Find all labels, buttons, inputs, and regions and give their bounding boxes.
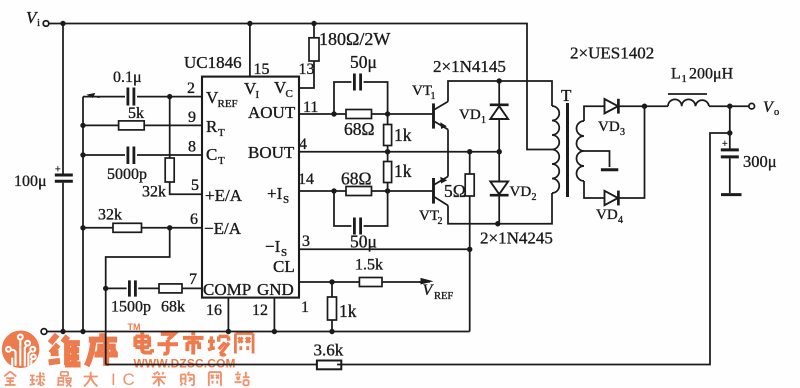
svg-text:9: 9 (188, 109, 196, 126)
wire: 100u bottom to ground rail (62, 183, 64, 332)
wire: pin8 CT row (83, 154, 202, 156)
wire: VD4 up to rectifier junction (618, 106, 644, 198)
pin 9 label (188, 109, 196, 126)
node: BOUT row 1k junction (385, 149, 390, 154)
trimmer arrow on VREF wire (87, 93, 100, 98)
watermark char shi (183, 332, 204, 355)
watermark slogan IC (111, 370, 135, 388)
IC inner pin name CL (273, 257, 295, 276)
resistor R 1k pulldown (328, 282, 357, 332)
svg-text:−E/A: −E/A (204, 219, 242, 238)
watermark slogan da (84, 372, 98, 386)
watermark slogan wang2 (209, 372, 221, 386)
wire: pin4 BOUT row to VD junction (299, 136, 499, 153)
wire: feedback drop from comp node to bottom line (105, 288, 107, 364)
wire: secondary centre tap (584, 151, 610, 167)
svg-text:11: 11 (303, 99, 318, 116)
svg-text:COMP: COMP (203, 280, 251, 299)
capacitor C 0.1u (113, 69, 142, 106)
svg-text:+E/A: +E/A (205, 186, 243, 205)
pin 5 label (191, 177, 199, 194)
resistor R 180ohm/2W (309, 24, 390, 62)
svg-text:TM: TM (128, 322, 141, 332)
svg-text:8: 8 (188, 139, 196, 156)
svg-text:200μH: 200μH (689, 66, 734, 83)
wire: VD3 to output node (618, 105, 668, 107)
svg-text:3.6k: 3.6k (314, 341, 344, 360)
svg-text:WWW.DZSC.COM: WWW.DZSC.COM (134, 357, 236, 371)
watermark slogan zhan (234, 371, 249, 385)
IC inner pin name BOUT (248, 143, 295, 162)
svg-text:1k: 1k (339, 301, 357, 321)
svg-text:REF: REF (218, 98, 238, 110)
wire: feedback bottom line to 3.6k (106, 364, 317, 366)
node: AOUT row right (385, 111, 390, 116)
svg-text:2: 2 (187, 80, 195, 97)
transformer T primary winding (552, 106, 559, 193)
resistor R 1k upper (384, 114, 412, 152)
resistor R 68ohm upper (344, 110, 375, 140)
watermark slogan zui (57, 372, 72, 387)
resistor R 32k to +E/A (142, 97, 202, 201)
svg-text:L: L (671, 66, 681, 83)
node: pin15 feed (247, 21, 252, 26)
svg-text:15: 15 (254, 61, 270, 78)
watermark slogan quan (4, 371, 16, 384)
svg-text:C: C (123, 370, 135, 388)
wire: top +Vin rail from Vi to right corner then down to transformer center tap (49, 24, 552, 150)
svg-text:4: 4 (299, 136, 307, 153)
wire: output down to 300u (729, 106, 731, 148)
svg-text:16: 16 (206, 302, 222, 319)
svg-text:13: 13 (299, 61, 315, 78)
svg-text:VD: VD (459, 107, 481, 123)
svg-text:180Ω/2W: 180Ω/2W (319, 29, 390, 49)
svg-text:VD: VD (598, 119, 620, 135)
node: VD2 cathode junction (495, 221, 500, 226)
svg-text:1: 1 (682, 74, 687, 85)
svg-text:+I: +I (267, 184, 283, 203)
IC inner pin name +IS (267, 184, 289, 206)
IC inner pin name VC (274, 78, 293, 100)
watermark brand char wei (49, 335, 81, 366)
node VREF arrow label (419, 278, 453, 302)
svg-text:4: 4 (618, 215, 623, 226)
svg-text:2×UES1402: 2×UES1402 (570, 44, 654, 63)
resistor R 5ohm current sense (444, 152, 474, 201)
transformer T secondary winding (577, 121, 585, 181)
svg-text:6: 6 (190, 211, 198, 228)
pin 7 label (189, 271, 197, 288)
resistor R 68k (159, 284, 185, 316)
node: -IS to 5ohm line (467, 247, 472, 252)
svg-text:S: S (283, 194, 289, 206)
svg-text:REF: REF (434, 291, 453, 302)
svg-text:VD: VD (596, 207, 618, 223)
svg-text:+: + (55, 165, 61, 176)
svg-text:T: T (561, 86, 572, 105)
svg-text:GND: GND (257, 280, 294, 299)
svg-text:VT: VT (412, 83, 432, 99)
pin 2 label (187, 80, 195, 97)
node: -E/A junction (167, 225, 172, 230)
transistor Q VT1 (412, 83, 448, 130)
svg-text:14: 14 (298, 171, 314, 188)
svg-text:i: i (37, 17, 40, 29)
watermark slogan cai (152, 371, 166, 386)
svg-text:3: 3 (620, 127, 625, 138)
pin 12 stub and label (252, 298, 277, 335)
inductor L1 200uH (668, 66, 734, 107)
svg-text:1: 1 (431, 91, 436, 102)
svg-text:1.5k: 1.5k (355, 257, 383, 274)
svg-text:5000p: 5000p (107, 166, 147, 183)
resistor R 68ohm lower (341, 169, 372, 196)
node: +IS row left (331, 188, 336, 193)
IC inner pin name -E/A (204, 219, 242, 238)
svg-text:1k: 1k (394, 125, 412, 145)
pin 16 stub and label (206, 298, 231, 335)
IC inner pin name RT (206, 117, 225, 139)
IC inner pin name CT (206, 145, 225, 167)
svg-text:VD: VD (510, 184, 532, 200)
resistor R 1k lower (384, 152, 412, 191)
svg-text:12: 12 (252, 302, 268, 319)
svg-text:1k: 1k (394, 161, 412, 181)
wire: VT2 collector down and over to primary bottom (448, 193, 552, 224)
svg-text:AOUT: AOUT (248, 103, 296, 122)
wire: pin11 AOUT row to VT1 base (299, 99, 433, 116)
capacitor C 50u lower bypass loop (334, 191, 388, 252)
svg-text:7: 7 (189, 271, 197, 288)
svg-text:32k: 32k (98, 207, 122, 224)
svg-text:C: C (286, 88, 293, 100)
svg-text:R: R (206, 117, 218, 136)
svg-text:2: 2 (438, 216, 443, 227)
wire: pin9 RT row (83, 124, 202, 126)
capacitor C 5000p (107, 147, 147, 184)
svg-text:2×1N4145: 2×1N4145 (433, 57, 506, 76)
node: output junction (727, 104, 732, 109)
node: rectifier junction (642, 104, 647, 109)
diode VD3 (598, 99, 625, 138)
node: CL row 1k junction (329, 279, 334, 284)
wire: pin3 -IS row (299, 233, 470, 250)
svg-text:T: T (218, 127, 225, 139)
transformer T core (561, 86, 572, 197)
node: +IS row right (385, 188, 390, 193)
svg-text:2×1N4245: 2×1N4245 (480, 229, 553, 248)
wire: pin6 -E/A row (83, 227, 202, 229)
svg-text:I: I (111, 370, 116, 388)
wire: jog -E/A to comp node (106, 228, 170, 289)
node: bias -E/A row (80, 225, 85, 230)
label 2xUES1402 (570, 44, 654, 63)
node: emitter row to VD1-VD2 (497, 149, 502, 154)
capacitor 100u (14, 165, 73, 191)
watermark char zi (157, 334, 178, 354)
node: bias 5000p row (80, 152, 85, 157)
wire: input left drop to 100u (62, 24, 64, 174)
capacitor C 50u upper bypass loop (334, 52, 388, 114)
wire: 5ohm bottom down to -IS and ground rail corner (469, 196, 471, 332)
resistor R 1.5k (355, 257, 383, 287)
svg-text:1: 1 (481, 115, 486, 126)
node: comp feedback node (103, 286, 108, 291)
wire: 300u bottom (729, 158, 731, 193)
node: bias 5k row (80, 123, 85, 128)
wire: pin7 COMP row (106, 287, 202, 289)
resistor R 32k feedback (98, 207, 142, 233)
wire: secondary bottom to VD4 (584, 181, 605, 198)
node: 1k to ground rail (329, 329, 334, 334)
node: emitter row to 5ohm (467, 149, 472, 154)
svg-text:68Ω: 68Ω (344, 119, 375, 139)
wire: pin14 +IS row to VT2 base (298, 171, 433, 191)
svg-text:3: 3 (302, 233, 310, 250)
watermark logo disc (2, 331, 40, 369)
IC inner pin name GND (257, 280, 294, 299)
watermark char chang (208, 336, 229, 355)
node: feedback tap (727, 130, 732, 135)
svg-text:5: 5 (191, 177, 199, 194)
wire: pin CL row (299, 281, 421, 283)
svg-text:68k: 68k (161, 299, 185, 316)
wire: feedback bottom line to output riser (337, 133, 730, 365)
svg-text:−I: −I (265, 237, 281, 256)
svg-text:+: + (722, 139, 728, 150)
node: ground at bias line (80, 329, 85, 334)
node: AOUT row left (331, 111, 336, 116)
diode VD2 (490, 152, 537, 224)
svg-text:5Ω: 5Ω (444, 181, 466, 201)
svg-text:BOUT: BOUT (248, 143, 295, 162)
IC inner pin name +E/A (205, 186, 243, 205)
wire: pin2 VREF row (83, 96, 202, 98)
node: VD1 cathode junction (497, 78, 502, 83)
wire: secondary top to VD3 (584, 106, 605, 121)
node: Vi junction (60, 21, 65, 26)
IC inner pin name VREF (206, 88, 238, 110)
svg-text:CL: CL (273, 257, 295, 276)
resistor R 3.6k (314, 341, 344, 370)
label 2x1N4245 (480, 229, 553, 248)
svg-text:o: o (774, 107, 779, 118)
watermark TM mark (128, 322, 141, 332)
input terminal Vi (26, 8, 49, 29)
watermark slogan gou (181, 372, 194, 386)
svg-text:V: V (423, 282, 435, 299)
watermark char wang (235, 333, 253, 353)
watermark slogan qiu (30, 372, 45, 385)
capacitor C 300u (721, 139, 777, 171)
node: 180ohm feed (311, 21, 316, 26)
IC inner pin name VI (244, 79, 260, 101)
svg-text:0.1μ: 0.1μ (113, 69, 142, 86)
output terminal Vo (749, 99, 779, 118)
svg-text:50μ: 50μ (350, 52, 377, 72)
watermark brand char ku (87, 333, 118, 366)
IC inner pin name -IS (265, 237, 287, 259)
wire: VT1 emitter down crossing BOUT row to VT2 emitter (447, 130, 449, 177)
op-amp U1 UC1846 package (184, 53, 299, 298)
pin 13 stub and label (299, 61, 315, 88)
wire: ground rail (47, 331, 470, 333)
svg-text:300μ: 300μ (743, 152, 777, 171)
ground output plate (721, 193, 742, 196)
wire: VT1 collector up and over to primary top (448, 81, 552, 106)
ground input terminal (41, 329, 47, 335)
svg-text:C: C (206, 145, 217, 164)
IC inner pin name COMP (203, 280, 251, 299)
diode VD1 (459, 81, 509, 152)
svg-text:2: 2 (532, 192, 537, 203)
node: VREF row to 32k (167, 94, 172, 99)
resistor R 5k (119, 105, 145, 130)
diode VD4 (596, 191, 623, 226)
svg-text:5k: 5k (128, 105, 144, 122)
pin 1 label (301, 299, 309, 316)
label 2x1N4145 (433, 57, 506, 76)
ground secondary centre tap plate (601, 168, 618, 171)
svg-text:68Ω: 68Ω (341, 169, 372, 189)
watermark char dian (135, 332, 152, 352)
pin 8 label (188, 139, 196, 156)
svg-text:T: T (218, 155, 225, 167)
svg-text:I: I (256, 89, 260, 101)
transistor Q VT2 (419, 177, 448, 228)
svg-text:VT: VT (419, 208, 439, 224)
svg-text:UC1846: UC1846 (184, 53, 242, 72)
capacitor C 1500p (111, 280, 151, 315)
node: ground at input line (60, 329, 65, 334)
svg-text:1500p: 1500p (111, 299, 151, 316)
wire: L1 to Vo terminal (709, 105, 749, 107)
watermark url (134, 357, 236, 371)
pin 15 stub and label (250, 24, 270, 79)
svg-text:100μ: 100μ (14, 173, 47, 190)
wire: bias line vertical (82, 97, 84, 332)
IC inner pin name AOUT (248, 103, 296, 122)
svg-text:32k: 32k (142, 184, 166, 201)
svg-text:1: 1 (301, 299, 309, 316)
pin 6 label (190, 211, 198, 228)
